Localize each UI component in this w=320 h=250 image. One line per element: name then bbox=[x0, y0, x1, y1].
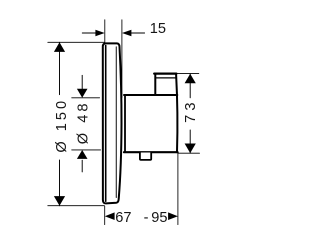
dim O150 extension top bbox=[48, 41, 105, 43]
tab under body bbox=[140, 153, 151, 160]
dim O48 arrow down bbox=[77, 89, 88, 98]
dim O48 extension bottom bbox=[72, 149, 101, 151]
dim 73 arrow up bbox=[185, 74, 196, 84]
dim 67-95 arrow left bbox=[105, 212, 115, 220]
dim O48 leader top bbox=[81, 75, 83, 89]
escutcheon plate outline (side view) bbox=[103, 43, 122, 203]
dim O150 extension bottom bbox=[48, 205, 105, 207]
dim O48 extension top bbox=[72, 97, 100, 99]
stop box on top of body bbox=[154, 74, 176, 95]
dim 15 leader right bbox=[131, 32, 145, 34]
dim O150 arrow up bbox=[54, 42, 65, 52]
dim 15 extension line left bbox=[104, 20, 106, 43]
plate front face inner line bbox=[105, 46, 107, 202]
dim 67-95 arrow right bbox=[168, 212, 178, 220]
dim 73 extension bottom bbox=[178, 152, 200, 154]
dim 15 arrow right bbox=[122, 30, 131, 37]
dim O150 line bbox=[59, 42, 61, 205]
svg-text:73: 73 bbox=[183, 98, 199, 122]
body of concealed valve bbox=[124, 74, 178, 152]
dim O48 leader bottom bbox=[81, 160, 83, 172]
dim 73 extension top bbox=[177, 73, 199, 75]
svg-text:67-95: 67-95 bbox=[115, 210, 167, 226]
svg-text:Ø 48: Ø 48 bbox=[76, 101, 92, 145]
dim 73 arrow down bbox=[185, 144, 196, 154]
dim 15 leader left bbox=[82, 32, 95, 34]
dim 67-95 extension left bbox=[104, 206, 106, 224]
dim 73 line bbox=[189, 74, 191, 153]
dim O150 arrow down bbox=[54, 196, 65, 206]
svg-text:Ø 150: Ø 150 bbox=[54, 98, 70, 153]
dim 15 extension line right bbox=[121, 20, 123, 98]
plate back thin line bbox=[115, 47, 117, 198]
dim O48 arrow up bbox=[77, 150, 88, 159]
svg-text:15: 15 bbox=[150, 21, 166, 37]
dim 15 arrow left bbox=[95, 30, 104, 37]
dim 67-95 extension right bbox=[177, 154, 179, 225]
